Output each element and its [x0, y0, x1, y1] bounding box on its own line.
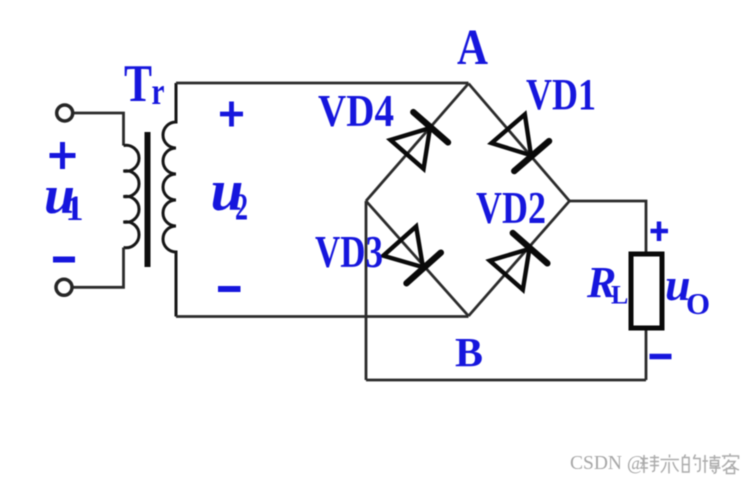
transformer Tr primary winding: [124, 145, 140, 248]
svg-text:L: L: [611, 281, 628, 310]
svg-text:VD4: VD4: [318, 85, 394, 136]
resistor RL: [631, 254, 662, 328]
wire: arm node B to left node (VD3 branch): [366, 201, 469, 316]
label minus uO: [650, 354, 672, 360]
svg-text:CSDN @: CSDN @: [570, 453, 645, 474]
terminal bottom-left input: [56, 279, 72, 295]
svg-text:A: A: [457, 20, 488, 76]
wire: arm right node to node B (VD2 branch): [469, 201, 570, 316]
wire: arm left node to node A (VD4 branch): [366, 84, 469, 202]
wire: top rail secondary to node A: [176, 82, 469, 85]
label minus u2: [218, 286, 241, 292]
svg-text:VD2: VD2: [476, 183, 546, 233]
svg-text:1: 1: [66, 188, 84, 228]
transformer Tr secondary winding: [163, 83, 176, 317]
wire: top terminal to primary top: [74, 113, 124, 146]
label plus u1: [50, 142, 76, 169]
svg-text:r: r: [152, 71, 165, 113]
diode VD1: [491, 114, 549, 171]
watermark chinese glyph strokes: [640, 454, 739, 474]
svg-text:T: T: [124, 55, 152, 113]
wire: bottom rail: [366, 379, 646, 382]
label plus u2: [220, 102, 243, 127]
wire: secondary bottom rail to node B: [176, 315, 469, 318]
label plus uO: [651, 222, 669, 242]
wire: right bridge node to resistor top: [570, 201, 647, 254]
博: [703, 455, 721, 473]
客: [722, 454, 739, 474]
wire: resistor bottom to bottom rail: [645, 328, 648, 380]
亦: [661, 455, 680, 474]
wire: arm node A to right node (VD1 branch): [469, 84, 570, 202]
diode VD3: [383, 226, 441, 283]
label minus u1: [53, 257, 75, 263]
svg-text:VD1: VD1: [526, 70, 596, 119]
wire: left bridge node down: [365, 201, 368, 380]
svg-text:O: O: [686, 286, 710, 321]
diode VD4: [390, 112, 448, 169]
svg-text:VD3: VD3: [315, 227, 383, 277]
韩: [640, 455, 659, 473]
terminal top-left input: [57, 105, 73, 121]
transformer core: [145, 132, 151, 267]
diode VD2: [489, 233, 547, 290]
wire: primary bottom to bottom terminal: [73, 248, 124, 288]
svg-text:B: B: [455, 329, 483, 375]
svg-text:2: 2: [235, 187, 248, 229]
的: [683, 455, 701, 473]
